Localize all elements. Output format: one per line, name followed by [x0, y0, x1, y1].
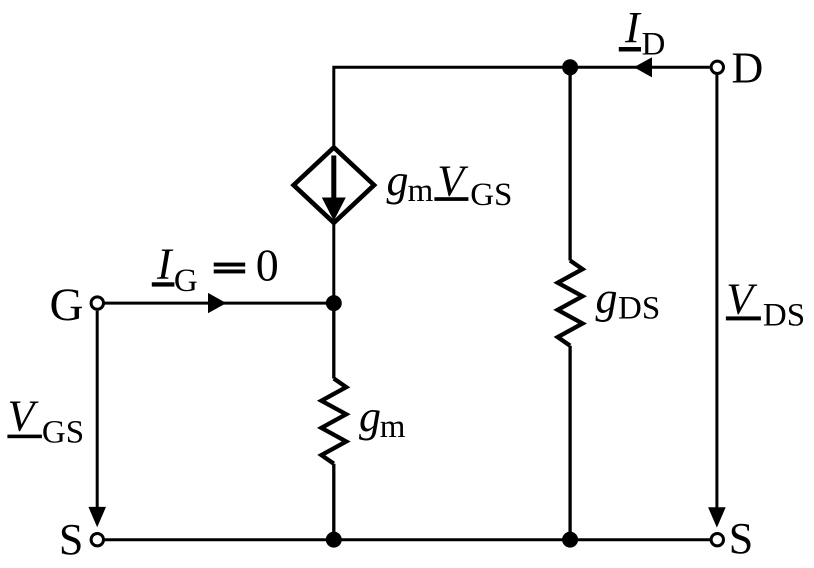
label terminal S left — [59, 515, 83, 564]
resistor g_DS (upper lead, zigzag, lower lead) — [558, 67, 583, 539]
svg-text:S: S — [729, 514, 753, 563]
wire top rail from current source top to drain terminal — [334, 67, 710, 146]
wire bottom source rail — [104, 538, 710, 541]
wire from current source bottom to gate node — [332, 222, 335, 303]
arrowhead I_G current arrow on gate lead — [208, 293, 226, 313]
svg-text:D: D — [642, 27, 666, 63]
svg-text:0: 0 — [256, 239, 279, 290]
label terminal D — [732, 43, 764, 92]
node: g_DS bottom on source rail — [562, 532, 578, 548]
current source U1 diamond outline — [294, 147, 375, 222]
label V_GS — [7, 392, 84, 451]
arrowhead V_GS voltage arrow — [88, 507, 106, 527]
arrowhead V_DS voltage arrow — [708, 507, 726, 527]
svg-text:m: m — [380, 409, 406, 445]
svg-text:G: G — [50, 279, 84, 331]
node: g_m bottom on source rail — [326, 532, 342, 548]
terminal D open circle — [711, 61, 723, 73]
svg-text:I: I — [156, 239, 174, 288]
terminal S right open circle — [711, 534, 723, 546]
arrowhead I_D current arrow on top rail — [634, 57, 652, 77]
label g_m V_GS (current source value) — [387, 156, 513, 213]
label V_DS — [726, 274, 805, 333]
svg-text:DS: DS — [763, 297, 805, 333]
label I_G = 0 — [152, 239, 279, 299]
svg-text:GS: GS — [470, 177, 512, 213]
svg-text:GS: GS — [42, 415, 84, 451]
wire gate-source left rail with V_GS direction — [96, 311, 99, 508]
label I_D — [619, 3, 666, 63]
svg-text:V: V — [8, 392, 40, 441]
svg-text:D: D — [732, 43, 764, 92]
svg-text:DS: DS — [618, 290, 660, 326]
wire drain right rail (D down to S) with V_DS direction — [715, 75, 718, 509]
svg-text:g: g — [359, 392, 381, 441]
svg-text:I: I — [624, 3, 642, 52]
svg-text:g: g — [387, 156, 409, 205]
label g_DS (resistor value) — [596, 274, 661, 327]
svg-text:V: V — [726, 274, 758, 323]
label g_m (resistor value) — [359, 392, 406, 445]
label terminal S right — [729, 514, 753, 563]
node: drain junction on top rail — [562, 59, 578, 75]
label terminal G — [50, 279, 84, 331]
current source arrow inside diamond — [322, 156, 346, 221]
resistor g_m (upper lead, zigzag, lower lead) — [321, 303, 346, 539]
svg-text:m: m — [408, 173, 434, 209]
svg-text:G: G — [174, 263, 198, 299]
svg-text:S: S — [59, 515, 83, 564]
terminal S left open circle — [91, 534, 103, 546]
terminal G open circle — [91, 297, 103, 309]
svg-text:g: g — [596, 274, 618, 323]
node: gate junction — [326, 295, 342, 311]
wire gate lead from terminal G to gate node — [104, 302, 334, 305]
